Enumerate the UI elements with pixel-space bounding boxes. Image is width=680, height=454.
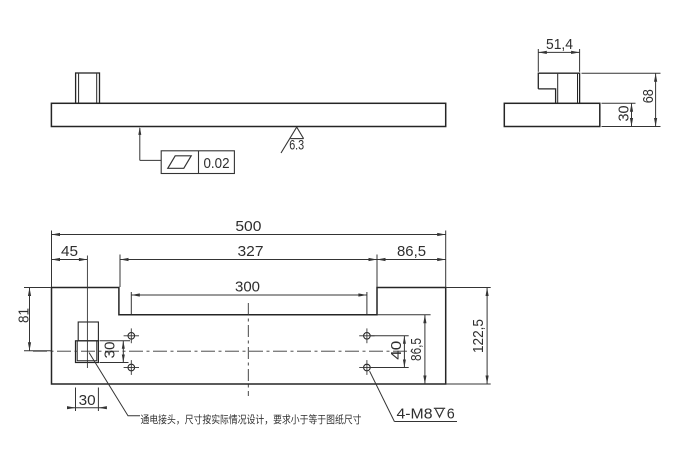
- dimension 30 connector depth: [100, 341, 131, 363]
- dimension 300: [131, 278, 367, 314]
- svg-text:122,5: 122,5: [470, 319, 487, 353]
- hole bottom-left M8: [124, 360, 139, 375]
- svg-text:68: 68: [640, 89, 657, 103]
- svg-text:30: 30: [102, 342, 119, 359]
- connector block centerline / 45 extension: [86, 256, 88, 369]
- dimension 327: [120, 243, 377, 287]
- svg-text:30: 30: [616, 106, 633, 122]
- dimension 86,5 right side: [377, 315, 431, 384]
- flatness leader: [138, 127, 161, 160]
- svg-text:40: 40: [388, 341, 405, 360]
- hole top-left M8: [124, 328, 139, 343]
- dimension 122,5: [446, 288, 491, 385]
- thread callout text 4-M8 depth 6: [397, 405, 455, 422]
- plan view plate outline: [52, 288, 446, 385]
- flatness symbol (parallelogram): [168, 156, 191, 169]
- hole bottom-right M8: [359, 360, 374, 375]
- dimension 30 connector width: [67, 388, 107, 412]
- plan view connector block upper part: [78, 322, 98, 341]
- svg-text:327: 327: [238, 243, 264, 260]
- svg-text:4-M8: 4-M8: [397, 405, 433, 422]
- plan view connector block lower part: [76, 341, 99, 363]
- dimension 500: [52, 218, 446, 287]
- plan view horizontal centerline: [33, 350, 412, 352]
- svg-text:45: 45: [61, 243, 78, 260]
- dimension 40 hole spacing: [371, 336, 409, 368]
- dimension 86,5 top: [377, 243, 446, 261]
- svg-text:6.3: 6.3: [289, 137, 304, 152]
- svg-text:0.02: 0.02: [204, 155, 230, 172]
- dimension 68: [582, 73, 661, 126]
- end view base: [504, 103, 600, 126]
- dimension 81: [15, 288, 51, 351]
- plan view vertical centerline: [247, 303, 249, 396]
- hole top-right M8: [359, 328, 374, 343]
- dimension 51,4: [538, 36, 579, 72]
- front view plate: [51, 103, 445, 126]
- svg-text:30: 30: [79, 392, 96, 409]
- svg-text:通电接头，尺寸按实际情况设计，要求小于等于图纸尺寸: 通电接头，尺寸按实际情况设计，要求小于等于图纸尺寸: [141, 413, 362, 426]
- dimension 45: [52, 243, 88, 261]
- svg-text:81: 81: [15, 308, 32, 323]
- svg-text:86,5: 86,5: [408, 338, 425, 361]
- svg-text:500: 500: [235, 218, 261, 235]
- surface finish symbol: [281, 127, 304, 153]
- flatness feature control frame: [161, 151, 234, 174]
- svg-text:86,5: 86,5: [397, 243, 426, 260]
- note leader: [89, 353, 140, 416]
- svg-text:6: 6: [447, 405, 455, 422]
- end view connector tab: [538, 73, 579, 103]
- thread callout leader 4-M8: [370, 371, 457, 421]
- front view connector tab: [76, 73, 100, 103]
- svg-text:300: 300: [235, 278, 260, 295]
- dimension 30 (end view base height): [602, 103, 636, 126]
- svg-text:51,4: 51,4: [546, 36, 573, 53]
